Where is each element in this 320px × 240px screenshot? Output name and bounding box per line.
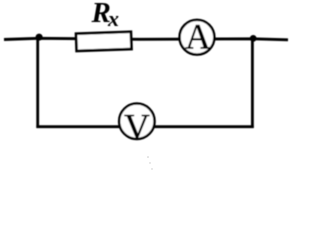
wire: right vertical branch [251,39,254,128]
wire: bottom horizontal [36,125,253,128]
svg-text:V: V [124,107,150,147]
wire: left vertical branch [36,38,39,128]
node: right junction [250,35,257,42]
wire: top horizontal from left edge to right edge [4,38,288,40]
svg-text:A: A [185,17,211,57]
ammeter A [180,20,215,55]
faint scan speckles [147,156,153,170]
voltmeter V [119,104,154,139]
resistor Rx [76,32,131,51]
svg-text:x: x [107,6,119,31]
node: left junction [36,34,43,41]
